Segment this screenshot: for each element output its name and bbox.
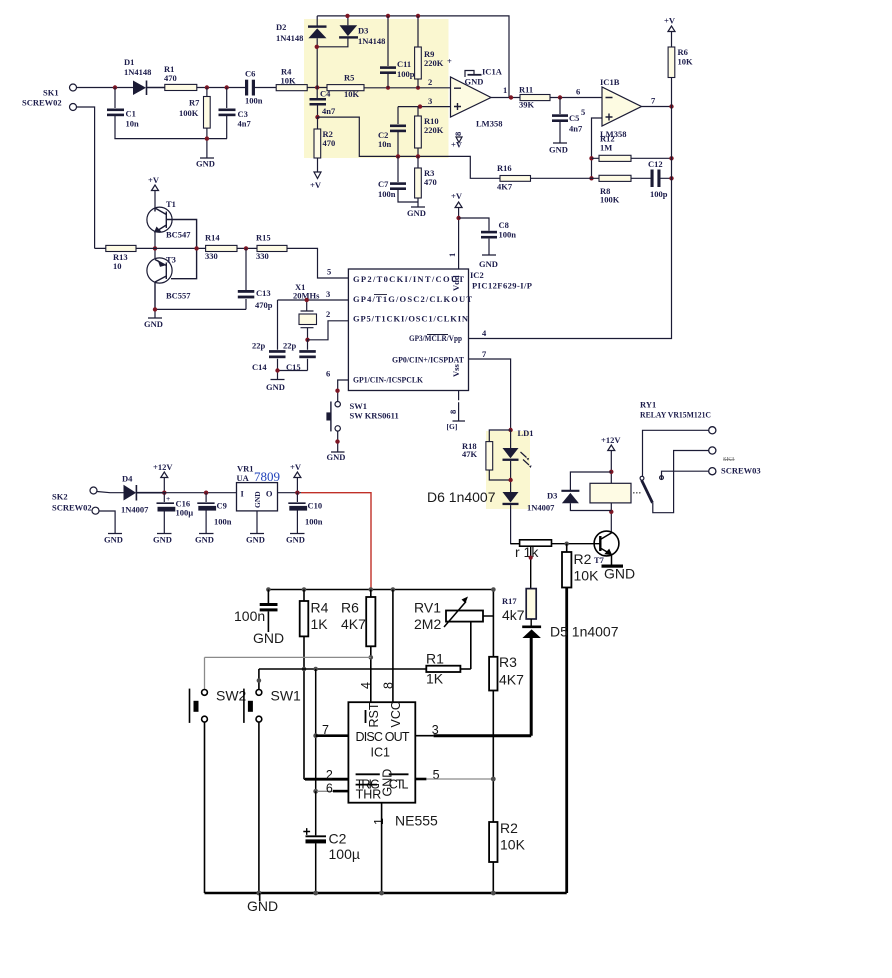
svg-text:8: 8 — [448, 410, 458, 414]
svg-text:IC2: IC2 — [470, 270, 484, 280]
svg-text:R1: R1 — [426, 651, 444, 667]
svg-text:LM358: LM358 — [476, 119, 502, 129]
svg-text:R15: R15 — [256, 233, 271, 243]
svg-text:1N4148: 1N4148 — [124, 67, 151, 77]
svg-text:D5 1n4007: D5 1n4007 — [550, 624, 619, 640]
svg-text:PIC12F629-I/P: PIC12F629-I/P — [472, 281, 532, 291]
svg-text:Vss: Vss — [451, 364, 461, 377]
svg-text:22p: 22p — [283, 341, 297, 351]
svg-text:R14: R14 — [205, 233, 220, 243]
svg-text:+V: +V — [290, 462, 302, 472]
svg-text:NE555: NE555 — [395, 813, 438, 829]
svg-text:GND: GND — [286, 535, 305, 545]
svg-text:SK2: SK2 — [52, 492, 68, 502]
svg-text:C9: C9 — [217, 501, 227, 511]
svg-text:R7: R7 — [189, 98, 200, 108]
svg-text:GP4/T1G/OSC2/CLKOUT: GP4/T1G/OSC2/CLKOUT — [353, 294, 472, 304]
svg-text:+V: +V — [664, 16, 676, 26]
svg-text:2: 2 — [326, 768, 333, 782]
svg-text:IC1B: IC1B — [600, 77, 620, 87]
svg-text:7809: 7809 — [254, 469, 280, 484]
svg-text:GND: GND — [549, 145, 568, 155]
svg-text:RELAY VR15M121C: RELAY VR15M121C — [640, 410, 711, 420]
svg-text:10K: 10K — [281, 76, 297, 86]
svg-text:SCREW02: SCREW02 — [22, 98, 62, 108]
svg-text:R6: R6 — [341, 600, 359, 616]
svg-text:5: 5 — [433, 768, 440, 782]
svg-text:R3: R3 — [499, 654, 517, 670]
svg-text:LD1: LD1 — [518, 428, 534, 438]
svg-text:470p: 470p — [255, 300, 273, 310]
svg-text:8: 8 — [453, 132, 463, 136]
svg-text:100K: 100K — [179, 108, 199, 118]
svg-text:D3: D3 — [358, 26, 368, 36]
svg-text:GND: GND — [246, 535, 265, 545]
svg-text:4k7: 4k7 — [502, 607, 525, 623]
svg-text:330: 330 — [256, 251, 269, 261]
svg-text:10K: 10K — [500, 837, 526, 853]
svg-text:T1: T1 — [166, 199, 176, 209]
svg-text:T3: T3 — [166, 255, 176, 265]
svg-text:+: + — [447, 56, 452, 66]
svg-text:5: 5 — [327, 267, 331, 277]
svg-text:T7: T7 — [594, 555, 605, 565]
svg-text:R11: R11 — [519, 85, 533, 95]
svg-text:100n: 100n — [499, 230, 517, 240]
svg-text:RY1: RY1 — [640, 400, 656, 410]
svg-text:GP2/T0CKI/INT/COUT: GP2/T0CKI/INT/COUT — [353, 274, 464, 284]
svg-text:C12: C12 — [648, 159, 663, 169]
svg-text:+V: +V — [451, 140, 463, 150]
svg-text:GND: GND — [247, 898, 278, 914]
svg-text:THR: THR — [356, 788, 382, 802]
svg-text:SCREW02: SCREW02 — [52, 503, 92, 513]
svg-text:2: 2 — [428, 77, 432, 87]
svg-text:SK1: SK1 — [43, 88, 59, 98]
svg-text:GP1/CIN-/ICSPCLK: GP1/CIN-/ICSPCLK — [353, 375, 423, 385]
svg-text:100n: 100n — [245, 96, 263, 106]
svg-text:GND: GND — [604, 566, 635, 582]
svg-text:10K: 10K — [678, 57, 694, 67]
svg-text:6: 6 — [326, 782, 333, 796]
svg-text:R5: R5 — [344, 73, 354, 83]
svg-text:R4: R4 — [311, 600, 329, 616]
svg-text:1: 1 — [503, 85, 507, 95]
svg-text:330: 330 — [205, 251, 218, 261]
svg-text:GND: GND — [266, 382, 285, 392]
svg-text:VR1: VR1 — [237, 464, 254, 474]
svg-text:47K: 47K — [462, 449, 478, 459]
svg-text:4n7: 4n7 — [322, 106, 336, 116]
svg-text:100n: 100n — [234, 608, 265, 624]
svg-text:2M2: 2M2 — [414, 616, 441, 632]
svg-text:C2: C2 — [329, 831, 347, 847]
svg-text:C5: C5 — [569, 113, 579, 123]
svg-text:C6: C6 — [245, 69, 255, 79]
svg-text:10K: 10K — [574, 568, 600, 584]
svg-text:1K: 1K — [426, 671, 444, 687]
svg-text:D1: D1 — [124, 57, 134, 67]
svg-text:GP5/T1CKI/OSC1/CLKIN: GP5/T1CKI/OSC1/CLKIN — [353, 314, 469, 324]
svg-text:C1: C1 — [126, 109, 136, 119]
svg-text:1: 1 — [372, 818, 386, 825]
svg-text:GND: GND — [253, 491, 262, 508]
svg-text:D6 1n4007: D6 1n4007 — [427, 489, 496, 505]
svg-text:[G]: [G] — [447, 422, 458, 431]
svg-text:D3: D3 — [547, 491, 557, 501]
svg-text:C15: C15 — [286, 362, 301, 372]
svg-text:220K: 220K — [424, 58, 444, 68]
svg-text:100µ: 100µ — [176, 508, 194, 518]
svg-text:4: 4 — [359, 682, 373, 689]
svg-text:GND: GND — [144, 319, 163, 329]
svg-text:RST: RST — [367, 702, 381, 727]
svg-text:4K7: 4K7 — [499, 672, 524, 688]
svg-text:GND: GND — [327, 452, 346, 462]
svg-text:1N4148: 1N4148 — [358, 36, 385, 46]
svg-text:5: 5 — [581, 107, 585, 117]
svg-text:+12V: +12V — [601, 435, 621, 445]
svg-text:GND: GND — [381, 769, 395, 797]
svg-text:GND: GND — [407, 208, 426, 218]
svg-text:+12V: +12V — [153, 462, 173, 472]
svg-text:100K: 100K — [600, 195, 620, 205]
svg-text:R16: R16 — [497, 163, 512, 173]
svg-text:GND: GND — [195, 535, 214, 545]
svg-text:BC547: BC547 — [166, 230, 191, 240]
svg-text:1K: 1K — [311, 616, 329, 632]
svg-text:C13: C13 — [256, 288, 271, 298]
svg-text:3: 3 — [428, 96, 432, 106]
svg-text:R2: R2 — [574, 551, 592, 567]
svg-text:SW1: SW1 — [350, 401, 367, 411]
svg-text:SW KRS0611: SW KRS0611 — [350, 411, 399, 421]
svg-text:C8: C8 — [499, 220, 509, 230]
svg-text:VCC: VCC — [389, 701, 403, 727]
svg-text:D4: D4 — [122, 474, 133, 484]
svg-text:+V: +V — [310, 180, 322, 190]
svg-text:10: 10 — [113, 261, 122, 271]
svg-text:3: 3 — [326, 289, 330, 299]
svg-text:R2: R2 — [500, 820, 518, 836]
svg-text:10n: 10n — [378, 139, 392, 149]
svg-text:470: 470 — [424, 177, 437, 187]
svg-text:D2: D2 — [276, 22, 286, 32]
svg-text:4n7: 4n7 — [238, 119, 252, 129]
svg-text:100n: 100n — [305, 517, 323, 527]
svg-text:1N4007: 1N4007 — [527, 503, 555, 513]
svg-text:1N4007: 1N4007 — [121, 505, 149, 515]
svg-text:1M: 1M — [600, 143, 612, 153]
svg-text:RV1: RV1 — [414, 600, 441, 616]
svg-text:GND: GND — [479, 259, 498, 269]
svg-text:UA: UA — [237, 473, 250, 483]
svg-text:100p: 100p — [397, 69, 415, 79]
svg-text:GND: GND — [196, 159, 215, 169]
svg-text:4K7: 4K7 — [497, 182, 513, 192]
svg-text:C4: C4 — [320, 89, 331, 99]
svg-text:GND: GND — [465, 77, 484, 87]
svg-text:39K: 39K — [519, 100, 535, 110]
svg-text:GND: GND — [104, 535, 123, 545]
svg-text:Vdd: Vdd — [451, 275, 461, 291]
svg-text:C7: C7 — [378, 179, 389, 189]
svg-text:IC1A: IC1A — [482, 67, 503, 77]
svg-text:4K7: 4K7 — [341, 616, 366, 632]
svg-text:SW1: SW1 — [271, 688, 302, 704]
svg-text:R6: R6 — [678, 47, 688, 57]
svg-text:C3: C3 — [238, 109, 248, 119]
svg-text:220K: 220K — [424, 125, 444, 135]
svg-text:+V: +V — [451, 191, 463, 201]
svg-text:C10: C10 — [308, 501, 323, 511]
svg-text:O: O — [266, 489, 273, 499]
svg-text:6: 6 — [326, 369, 330, 379]
svg-text:+: + — [166, 494, 170, 503]
svg-text:GND: GND — [153, 535, 172, 545]
svg-text:6: 6 — [576, 87, 580, 97]
svg-text:R17: R17 — [502, 596, 517, 606]
svg-text:10K: 10K — [344, 89, 360, 99]
svg-text:IC1: IC1 — [371, 746, 391, 760]
svg-text:100µ: 100µ — [329, 846, 360, 862]
svg-text:1N4148: 1N4148 — [276, 33, 303, 43]
svg-text:DISC OUT: DISC OUT — [356, 730, 410, 744]
svg-text:22p: 22p — [252, 341, 266, 351]
svg-text:C11: C11 — [397, 59, 411, 69]
svg-text:BC557: BC557 — [166, 291, 191, 301]
svg-text:100n: 100n — [214, 517, 232, 527]
svg-text:7: 7 — [322, 723, 329, 737]
svg-text:2: 2 — [326, 309, 330, 319]
svg-text:100n: 100n — [378, 189, 396, 199]
svg-text:SW2: SW2 — [216, 688, 247, 704]
svg-text:470: 470 — [164, 73, 177, 83]
svg-text:4n7: 4n7 — [569, 124, 583, 134]
svg-text:r 1k: r 1k — [515, 544, 539, 560]
svg-text:GP0/CIN+/ICSPDAT: GP0/CIN+/ICSPDAT — [392, 355, 464, 365]
svg-text:+V: +V — [148, 175, 160, 185]
svg-text:SK3: SK3 — [723, 456, 735, 463]
svg-text:1: 1 — [447, 253, 457, 257]
svg-text:GND: GND — [253, 630, 284, 646]
svg-text:8: 8 — [382, 682, 396, 689]
svg-text:10n: 10n — [126, 119, 140, 129]
svg-text:470: 470 — [323, 138, 336, 148]
svg-text:C14: C14 — [252, 362, 267, 372]
svg-text:100p: 100p — [650, 189, 668, 199]
svg-text:SCREW03: SCREW03 — [721, 466, 761, 476]
